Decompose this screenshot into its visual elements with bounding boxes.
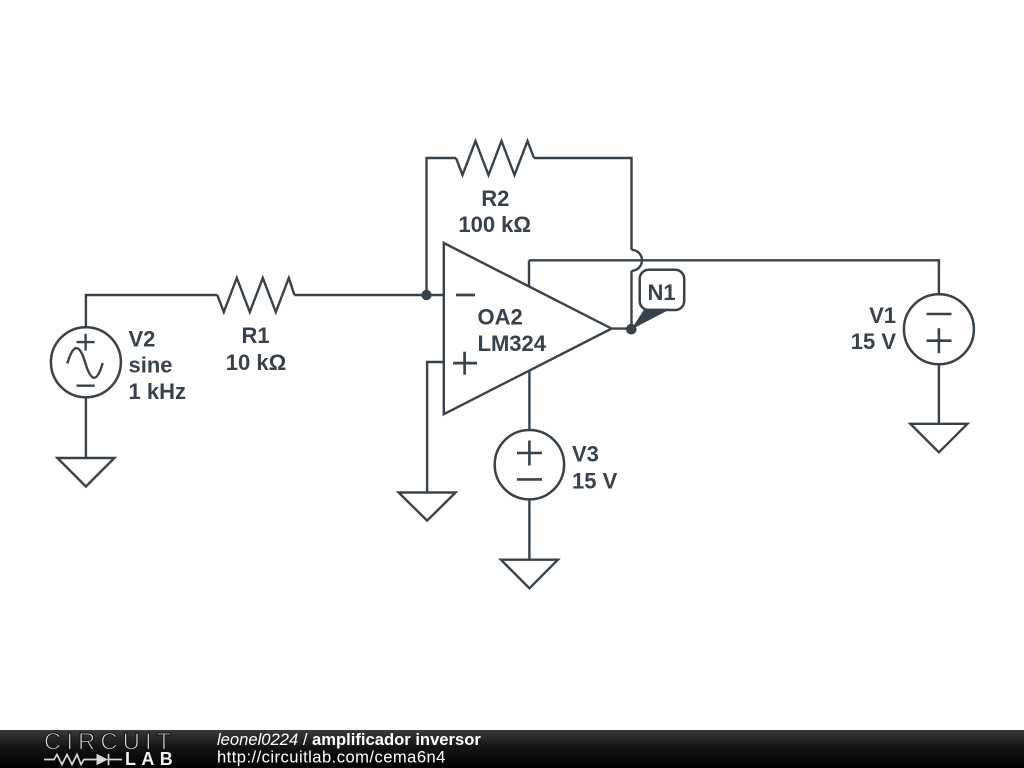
- ground under V3: [501, 560, 558, 589]
- wire feedback riser left (node to R2): [427, 158, 457, 295]
- svg-text:15 V: 15 V: [572, 468, 618, 493]
- resistor R2: [456, 141, 534, 175]
- node flag N1 pointer: [631, 309, 671, 330]
- svg-text:OA2: OA2: [478, 305, 523, 330]
- CircuitLab logo diode squiggle: [44, 754, 122, 765]
- svg-text:LM324: LM324: [478, 331, 547, 356]
- svg-text:V3: V3: [572, 441, 599, 466]
- wire V1 to ground: [938, 364, 940, 424]
- op-amp plus symbol: [453, 352, 477, 375]
- svg-text:1 kHz: 1 kHz: [129, 379, 186, 404]
- wire V2 to ground: [85, 397, 87, 458]
- svg-text:leonel0224 / amplificador inve: leonel0224 / amplificador inversor: [217, 730, 481, 749]
- resistor R1: [217, 278, 294, 312]
- ground under op-amp: [399, 493, 456, 521]
- op-amp output pin stub: [612, 327, 632, 329]
- ground under V2: [57, 458, 114, 487]
- svg-text:LAB: LAB: [125, 749, 178, 768]
- wire R2 right to hop: [534, 158, 632, 250]
- V2 minus symbol: [77, 385, 95, 387]
- ground under V1: [910, 424, 967, 453]
- node junction dot at inverting input: [421, 290, 431, 300]
- voltage source V2: [51, 327, 121, 397]
- svg-text:V2: V2: [129, 326, 156, 351]
- svg-text:R1: R1: [241, 323, 269, 348]
- op-amp U1 triangle OA2: [444, 243, 612, 414]
- svg-text:sine: sine: [129, 353, 173, 378]
- wire op-amp V+ pin stub: [528, 260, 530, 286]
- wire V3 to ground: [528, 499, 530, 559]
- wire hop over supply wire: [632, 250, 642, 271]
- svg-text:15 V: 15 V: [851, 329, 897, 354]
- node junction dot at output N1: [626, 324, 637, 335]
- node flag N1 box: [640, 270, 685, 310]
- V2 sine symbol: [67, 348, 102, 378]
- voltage source V3: [495, 430, 564, 499]
- svg-text:http://circuitlab.com/cema6n4: http://circuitlab.com/cema6n4: [217, 748, 446, 767]
- wire op-amp V- pin to V3: [528, 371, 530, 430]
- wire R1 to op-amp inverting input: [294, 294, 443, 296]
- svg-text:N1: N1: [647, 280, 675, 305]
- svg-text:10 kΩ: 10 kΩ: [226, 350, 286, 375]
- voltage source V1: [904, 294, 974, 364]
- wire op-amp non-inverting input to ground: [427, 362, 444, 493]
- wire V2 top to R1: [86, 295, 217, 328]
- svg-text:R2: R2: [481, 186, 509, 211]
- wire supply rail to V1: [529, 260, 939, 294]
- wire hop to output node: [630, 271, 632, 329]
- svg-text:V1: V1: [869, 303, 896, 328]
- footer bar: [0, 730, 1024, 768]
- svg-text:100 kΩ: 100 kΩ: [458, 212, 531, 237]
- op-amp minus symbol: [456, 294, 475, 297]
- V2 plus symbol: [77, 334, 95, 351]
